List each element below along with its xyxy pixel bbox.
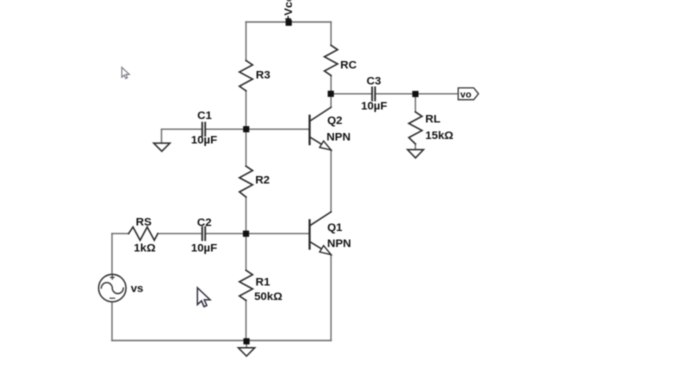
svg-text:vs: vs — [131, 283, 144, 295]
svg-text:RL: RL — [425, 113, 440, 125]
svg-text:vo: vo — [460, 89, 471, 100]
svg-text:C2: C2 — [197, 217, 212, 229]
svg-text:50kΩ: 50kΩ — [254, 291, 282, 303]
svg-text:NPN: NPN — [327, 131, 351, 143]
svg-text:RS: RS — [136, 217, 152, 229]
svg-text:Q2: Q2 — [327, 115, 342, 127]
svg-text:C1: C1 — [197, 110, 212, 122]
svg-text:10µF: 10µF — [361, 100, 387, 112]
svg-text:15kΩ: 15kΩ — [425, 130, 453, 142]
svg-text:10µF: 10µF — [191, 243, 217, 255]
svg-text:Q1: Q1 — [327, 222, 343, 234]
svg-text:+Vcc: +Vcc — [283, 0, 295, 22]
svg-text:C3: C3 — [367, 76, 382, 88]
svg-text:10µF: 10µF — [191, 134, 217, 146]
svg-text:NPN: NPN — [327, 238, 351, 250]
svg-text:R3: R3 — [256, 70, 271, 82]
svg-text:RC: RC — [340, 60, 356, 72]
svg-text:1kΩ: 1kΩ — [134, 243, 156, 255]
svg-text:R1: R1 — [256, 276, 271, 288]
svg-text:R2: R2 — [255, 174, 270, 186]
